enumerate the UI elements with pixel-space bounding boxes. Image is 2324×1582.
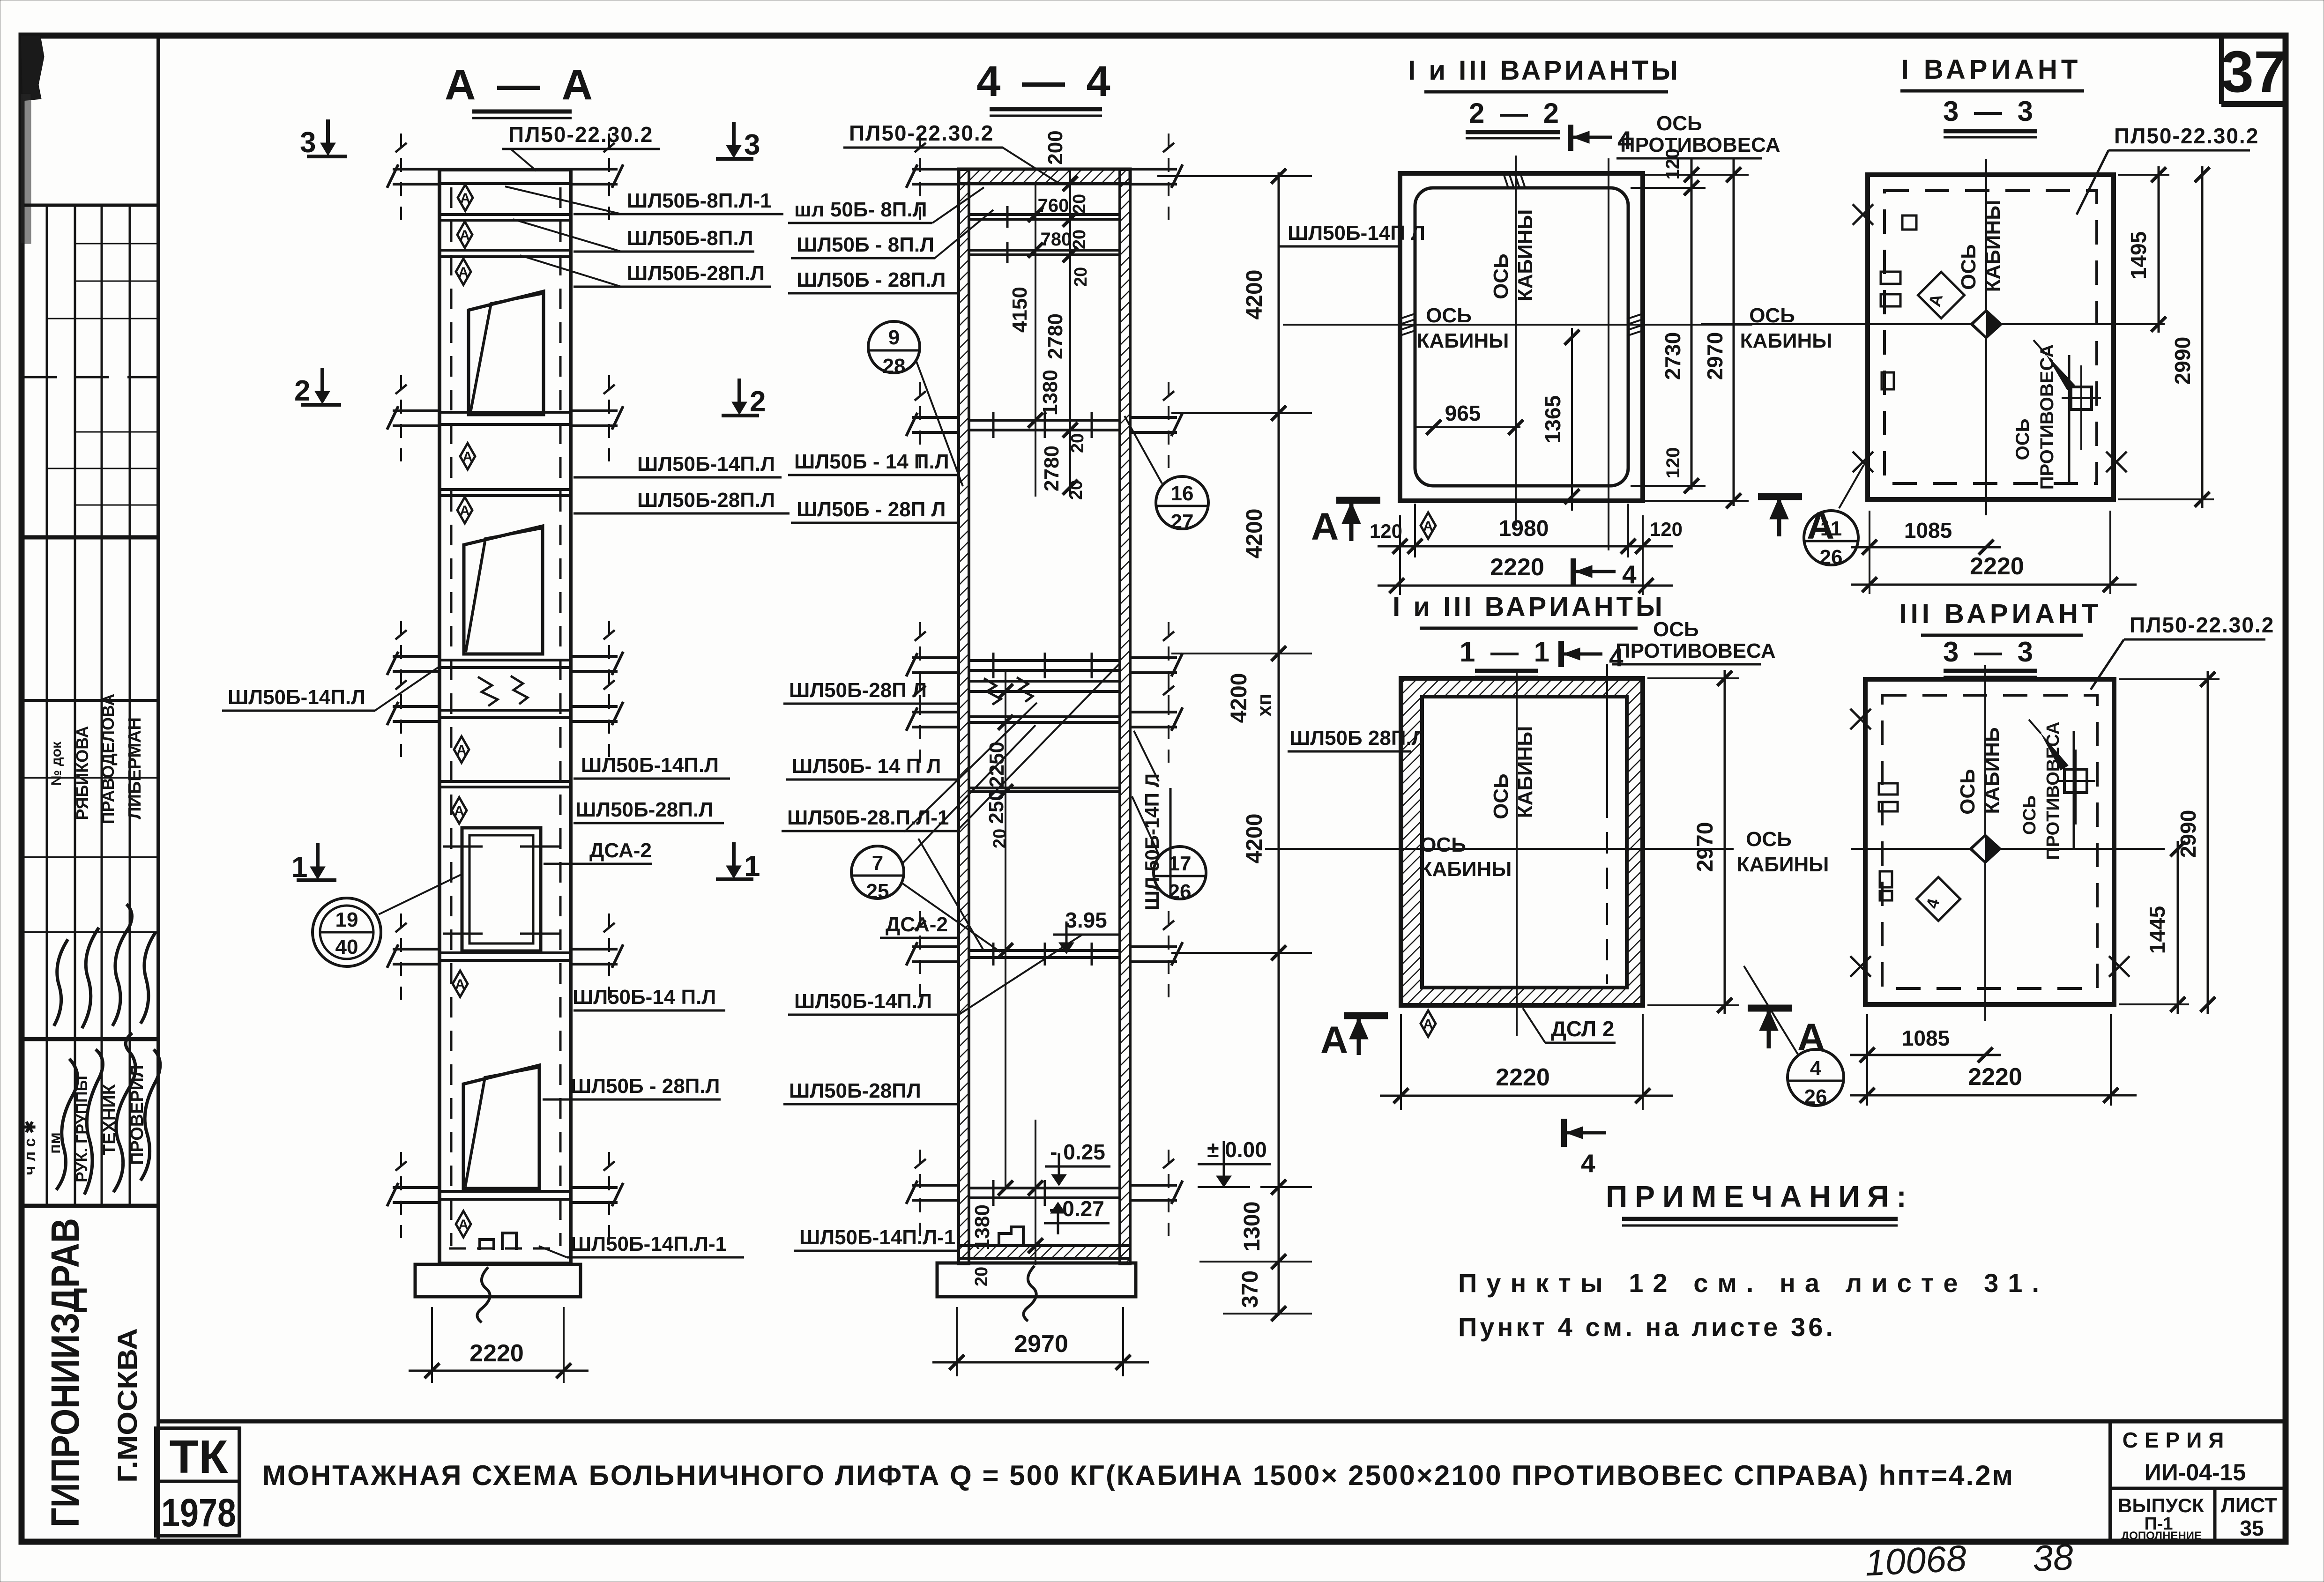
svg-text:120: 120 (1370, 520, 1402, 542)
svg-text:ТК: ТК (170, 1431, 229, 1483)
svg-text:ШЛ50Б-8П.Л-1: ШЛ50Б-8П.Л-1 (627, 189, 772, 212)
svg-text:ШЛ50Б-28ПЛ: ШЛ50Б-28ПЛ (789, 1079, 921, 1102)
svg-text:1380: 1380 (971, 1204, 994, 1250)
plan 3-3b centre diamond (1969, 834, 2002, 864)
svg-text:ОСЬ: ОСЬ (1426, 304, 1472, 327)
svg-text:4: 4 (1581, 1149, 1595, 1178)
svg-text:1380: 1380 (1039, 370, 1062, 416)
svg-text:1365: 1365 (1541, 395, 1565, 443)
svg-text:КАБИНЫ: КАБИНЫ (1737, 853, 1829, 876)
svg-text:ШЛ50Б-14 П.Л: ШЛ50Б-14 П.Л (573, 986, 716, 1009)
4-4 break squiggle (984, 678, 1001, 705)
svg-text:I и III ВАРИАНТЫ: I и III ВАРИАНТЫ (1393, 592, 1665, 622)
label ШЛ50Б-28ПЛ (783, 1079, 959, 1104)
svg-text:ОСЬ: ОСЬ (1490, 253, 1512, 299)
svg-text:3 — 3: 3 — 3 (1943, 636, 2037, 668)
A-A footing (415, 1264, 581, 1297)
svg-text:1085: 1085 (1902, 1026, 1950, 1050)
svg-text:370: 370 (1238, 1270, 1263, 1308)
svg-text:2970: 2970 (1693, 822, 1718, 872)
callout circle 9/28 (868, 321, 963, 486)
plan 2-2 wall hatch marks (1503, 172, 1526, 189)
svg-text:4200: 4200 (1227, 673, 1251, 723)
plan 2-2 cabin axis lines (1515, 156, 1517, 526)
svg-text:20: 20 (1068, 433, 1088, 453)
strip names (rotated) (49, 694, 145, 824)
svg-text:ПЛ50-22.30.2: ПЛ50-22.30.2 (2130, 613, 2274, 637)
4-4 pit buffer (999, 1227, 1023, 1246)
plan 2-2 dim 965 (1415, 401, 1523, 435)
crossing leader lines to panels (904, 663, 1120, 1015)
svg-text:4: 4 (1622, 560, 1637, 589)
svg-text:2730: 2730 (1661, 332, 1685, 380)
section level marker 2 (left) (294, 368, 341, 407)
callout circle 19/40 (313, 874, 462, 966)
plan 3-3b counterweight (2064, 769, 2087, 793)
svg-text:760: 760 (1038, 195, 1069, 216)
plan 1-1 corner diamond A (1421, 1010, 1436, 1037)
4-4 top slab (hatched) (959, 169, 1130, 184)
plan 3-3 dim 2990 (rotated) (2118, 166, 2214, 508)
svg-text:ГИПРОНИИЗДРАВ: ГИПРОНИИЗДРАВ (43, 1218, 87, 1527)
svg-text:19: 19 (335, 908, 358, 931)
4-4 shaft walls (hatched) (959, 170, 969, 1264)
A-A bottom dimension 2220 (409, 1307, 588, 1383)
svg-text:1978: 1978 (161, 1491, 236, 1535)
svg-text:ОСЬ: ОСЬ (1956, 769, 1979, 815)
label ДСА-2 (544, 839, 652, 864)
svg-text:16: 16 (1171, 482, 1194, 505)
plan 3-3b dim 2990 (rotated) (2119, 671, 2220, 1014)
svg-text:4200: 4200 (1242, 270, 1267, 320)
svg-text:ДСА-2: ДСА-2 (886, 913, 948, 936)
svg-text:2220: 2220 (1970, 553, 2024, 580)
svg-text:120: 120 (1663, 447, 1683, 479)
label ШЛ50Б-14 П.Л (573, 986, 725, 1010)
svg-text:27: 27 (1171, 510, 1194, 533)
plan 1-1 label ДСЛ 2 (1523, 1008, 1616, 1043)
svg-text:200: 200 (1044, 130, 1067, 164)
plan 1-1 cabin axis lines (1516, 669, 1518, 1036)
svg-text:ШЛ 50Б-14П Л: ШЛ 50Б-14П Л (1141, 773, 1163, 910)
svg-text:ШЛ50Б-14П.Л-1: ШЛ50Б-14П.Л-1 (571, 1233, 727, 1255)
svg-text:ВЫПУСК: ВЫПУСК (2118, 1494, 2204, 1516)
svg-text:3: 3 (744, 129, 760, 161)
section arrow marker A (upper right of 4-4) (1311, 500, 1380, 548)
bottom title bar frame (156, 1421, 2286, 1542)
svg-text:ОСЬ: ОСЬ (1746, 828, 1792, 851)
svg-text:35: 35 (2240, 1516, 2264, 1540)
svg-text:ШЛ50Б - 8П.Л: ШЛ50Б - 8П.Л (797, 233, 934, 256)
section level marker 2 (right) (722, 379, 766, 418)
plan 3-3 diamond A callout (1918, 272, 1965, 319)
A-A door opening bottom floor (463, 1065, 539, 1188)
svg-text:хп: хп (1253, 694, 1275, 717)
label ШЛ50Б-28П.Л (574, 489, 790, 513)
svg-text:ШЛ50Б - 28П.Л: ШЛ50Б - 28П.Л (571, 1075, 720, 1098)
plan 3-3b shaft walls (1865, 679, 2114, 1004)
svg-text:ПРИМЕЧАНИЯ:: ПРИМЕЧАНИЯ: (1606, 1180, 1914, 1213)
plan 3-3 bottom dims 1085 / 2220 (1851, 511, 2137, 594)
plan 2-2 section flag 4 (top) (1571, 125, 1632, 155)
svg-text:Пункты 12 см. на листе: Пункты 12 см. на листе 31. (1458, 1268, 2039, 1298)
plan 3-3b corner X marks (1850, 709, 1871, 729)
svg-text:СЕРИЯ: СЕРИЯ (2123, 1428, 2231, 1452)
svg-text:4200: 4200 (1242, 509, 1267, 559)
svg-text:2990: 2990 (2176, 810, 2200, 858)
svg-text:120: 120 (1662, 149, 1683, 180)
svg-text:ОСЬ: ОСЬ (1656, 112, 1702, 135)
svg-text:1495: 1495 (2126, 231, 2151, 279)
plan 2-2 right dims 120 2730 2970 (1631, 149, 1749, 508)
svg-text:1085: 1085 (1904, 518, 1952, 542)
svg-text:3.95: 3.95 (1065, 908, 1107, 932)
plan 3-3 door lock marks (1881, 272, 1900, 284)
svg-text:ШЛ50Б-14П.Л-1: ШЛ50Б-14П.Л-1 (799, 1226, 955, 1249)
A-A floor corbels (387, 134, 439, 220)
svg-text:ДСА-2: ДСА-2 (589, 839, 652, 862)
left title strip (stamp column) (24, 36, 158, 1542)
svg-text:А: А (1320, 1019, 1348, 1062)
A-A mount diamonds (458, 185, 473, 211)
svg-text:4150: 4150 (1008, 287, 1031, 333)
svg-text:3: 3 (300, 126, 316, 159)
svg-text:ШЛ50Б-14П.Л: ШЛ50Б-14П.Л (637, 453, 775, 475)
svg-text:КАБИНЫ: КАБИНЫ (1740, 329, 1832, 352)
label ШЛ50Б-28.П.Л-1 (782, 806, 959, 831)
plan 3-3 corner X marks (1853, 204, 1873, 225)
plan 3-3b diamond 4 callout (1916, 877, 1960, 921)
svg-text:КАБИНЫ: КАБИНЫ (1981, 200, 2004, 292)
label ШЛ50Б-8П.Л (upper) (788, 187, 984, 223)
label ПЛ50-22.30.2 (bottom right) (2091, 613, 2274, 690)
plan 3-3 axes (1985, 159, 1987, 515)
section level marker 1 (left) (291, 843, 336, 884)
strip signatures (handwritten scribbles) (54, 904, 160, 1195)
svg-text:965: 965 (1445, 401, 1481, 425)
4-4 inner dimension lines (1035, 184, 1036, 497)
svg-text:ОСЬ: ОСЬ (1957, 244, 1980, 290)
svg-text:ч л с ✱: ч л с ✱ (21, 1120, 39, 1175)
svg-text:2780: 2780 (1040, 446, 1063, 491)
svg-text:I и III ВАРИАНТЫ: I и III ВАРИАНТЫ (1408, 55, 1681, 86)
A-A door opening floor 8 (469, 291, 544, 415)
svg-text:ДОПОЛНЕНИЕ: ДОПОЛНЕНИЕ (2121, 1530, 2202, 1542)
4-4 floor corbels (906, 134, 959, 220)
A-A pit buffers (480, 1240, 494, 1250)
long leader label ШЛ50Б-14П Л (to plan 2-2) (1279, 222, 1425, 246)
svg-text:2 — 2: 2 — 2 (1469, 97, 1563, 129)
svg-text:20: 20 (1070, 230, 1089, 249)
svg-text:ШЛ50Б-28П.Л: ШЛ50Б-28П.Л (637, 489, 775, 512)
svg-text:ШЛ50Б-14П.Л: ШЛ50Б-14П.Л (228, 686, 365, 709)
4-4 right dimension chain (1157, 169, 1312, 1321)
label ШЛ50Б-14П.Л-1 (539, 1233, 744, 1257)
4-4 level mark -0.27 (1044, 1196, 1110, 1234)
svg-text:20: 20 (1070, 194, 1089, 214)
svg-text:2220: 2220 (469, 1340, 524, 1367)
svg-text:26: 26 (1820, 546, 1843, 569)
svg-text:А: А (1311, 505, 1339, 548)
plan 2-2 axis label ОСЬ ПРОТИВОВЕСА (top) (1616, 112, 1780, 158)
svg-text:2990: 2990 (2170, 337, 2195, 385)
rotated label ШЛ 50Б-14П Л (right of 4-4) (1134, 731, 1170, 910)
svg-text:ПЛ50-22.30.2: ПЛ50-22.30.2 (849, 121, 994, 145)
svg-text:ОСЬ: ОСЬ (1490, 773, 1512, 819)
label ШЛ50Б-28П.Л (788, 268, 959, 293)
svg-text:ПРАВОДЕЛОВА: ПРАВОДЕЛОВА (98, 694, 118, 824)
plan 3-3b axes (1984, 665, 1986, 1021)
svg-text:20: 20 (1066, 480, 1086, 500)
plan 3-3 counterweight (2071, 387, 2092, 409)
plan 1-1 dim 2220 (1380, 1014, 1673, 1110)
section level marker 1 (right) (716, 842, 760, 883)
label ШЛ50Б-14П.Л (788, 990, 959, 1015)
svg-text:2220: 2220 (1496, 1064, 1550, 1091)
svg-text:1300: 1300 (1240, 1202, 1265, 1252)
plan 2-2 shaft walls (1400, 173, 1643, 501)
svg-text:№ док: № док (49, 741, 64, 786)
section arrow marker A (lower right of 4-4) (1320, 1016, 1388, 1062)
svg-text:20: 20 (972, 1267, 991, 1286)
svg-text:± 0.00: ± 0.00 (1207, 1137, 1267, 1162)
A-A door frame ДСА-2 (462, 828, 541, 951)
svg-text:КАБИНЫ: КАБИНЫ (1514, 726, 1537, 818)
svg-text:26: 26 (1804, 1085, 1827, 1108)
svg-text:120: 120 (1650, 518, 1683, 540)
plan 3-3b bottom dims 1085 / 2220 (1850, 1014, 2137, 1106)
svg-text:28: 28 (883, 355, 906, 378)
4-4 left-side panel labels (782, 187, 993, 1251)
svg-text:ШЛ50Б - 14 П.Л: ШЛ50Б - 14 П.Л (794, 450, 949, 473)
svg-text:4 — 4: 4 — 4 (976, 58, 1115, 105)
plan 1-1 right dim 2970 (1647, 670, 1739, 1014)
svg-text:ПРОТИВОВЕСА: ПРОТИВОВЕСА (1620, 134, 1780, 156)
plan 1-1 shaft walls hatched (1401, 678, 1643, 1005)
label ШЛ50Б-28П.Л (783, 679, 959, 704)
label ШЛ50Б-14П.Л-1 (794, 1226, 959, 1251)
svg-text:РЯБИКОВА: РЯБИКОВА (73, 726, 92, 820)
long leader label ШЛ50Б 28П.Л (to plan 1-1) (1288, 727, 1426, 751)
svg-text:2780: 2780 (1044, 313, 1067, 359)
svg-text:ОСЬ: ОСЬ (1653, 618, 1699, 641)
svg-text:780: 780 (1041, 229, 1072, 250)
svg-text:17: 17 (1169, 852, 1192, 875)
plan 3-3 shaft walls (1868, 175, 2114, 499)
svg-text:ШЛ50Б-14П Л: ШЛ50Б-14П Л (1288, 222, 1425, 245)
svg-text:ШЛ50Б-28.П.Л-1: ШЛ50Б-28.П.Л-1 (787, 806, 949, 829)
svg-text:ОСЬ: ОСЬ (2020, 795, 2040, 835)
section arrow marker A (right-bottom of plan 2-2) (1758, 497, 1834, 547)
callout circle 4/26 (1744, 966, 1844, 1108)
svg-text:А — А: А — А (445, 61, 597, 109)
plan 2-2 section flag 4 (bottom) (1573, 558, 1637, 589)
scan smudge top-left (21, 36, 44, 101)
svg-text:37: 37 (2221, 39, 2286, 104)
A-A right-side panel labels (505, 186, 790, 1257)
strip row labels (rotated) (21, 1065, 147, 1182)
svg-text:ШЛ50Б - 28П.Л: ШЛ50Б - 28П.Л (797, 268, 946, 291)
section arrow marker A (right-bottom of plan 1-1) (1748, 1008, 1825, 1059)
4-4 slab rebar ticks (993, 206, 1092, 1206)
svg-text:4200: 4200 (1242, 814, 1267, 864)
plan 3-3 dim 1495 (rotated) (2118, 166, 2169, 333)
svg-text:ШЛ50Б-28П Л: ШЛ50Б-28П Л (789, 679, 927, 702)
plan 2-2 dim 1365 (rotated) (1541, 328, 1579, 511)
svg-text:МОНТАЖНАЯ СХЕМА БОЛЬНИЧНОГО: МОНТАЖНАЯ СХЕМА БОЛЬНИЧНОГО ЛИФТА Q = 50… (262, 1460, 2015, 1491)
callout circle 17/26 (1132, 796, 1206, 903)
label ШЛ50Б-14П.Л (574, 453, 782, 477)
4-4 footing (937, 1263, 1136, 1297)
svg-text:ИИ-04-15: ИИ-04-15 (2145, 1459, 2246, 1485)
svg-text:ЛИСТ: ЛИСТ (2221, 1494, 2277, 1517)
label ШЛ50Б-28П.Л (574, 798, 724, 823)
svg-text:2220: 2220 (1490, 554, 1544, 581)
svg-text:3 — 3: 3 — 3 (1943, 96, 2037, 127)
svg-text:20: 20 (990, 829, 1010, 848)
section level marker 3 (left) (300, 119, 347, 159)
svg-text:I ВАРИАНТ: I ВАРИАНТ (1901, 54, 2082, 85)
svg-text:КАБИНЬ: КАБИНЬ (1981, 727, 2004, 814)
svg-text:1980: 1980 (1499, 516, 1549, 541)
svg-text:ОСЬ: ОСЬ (2012, 419, 2033, 460)
svg-text:38: 38 (2032, 1536, 2074, 1579)
plan 3-3b door lock marks (1879, 783, 1898, 795)
section level marker 3 (right) (716, 122, 760, 161)
svg-text:ШЛ50Б-8П.Л: ШЛ50Б-8П.Л (627, 227, 753, 250)
plan 3-3b dim 1445 (rotated) (2119, 841, 2189, 1014)
callout circle 11/26 (1804, 465, 1864, 569)
svg-text:КАБИНЫ: КАБИНЫ (1514, 209, 1537, 302)
label ШЛ50Б-8П.Л-1 (505, 186, 783, 214)
svg-text:2970: 2970 (1703, 332, 1727, 380)
4-4 level mark 3.95 (1053, 908, 1120, 954)
svg-text:III ВАРИАНТ: III ВАРИАНТ (1899, 599, 2102, 629)
4-4 level mark -0.25 (1045, 1140, 1110, 1186)
svg-text:ДСЛ 2: ДСЛ 2 (1551, 1017, 1614, 1041)
svg-text:4: 4 (1810, 1057, 1822, 1080)
svg-text:ОСЬ: ОСЬ (1749, 304, 1795, 327)
svg-text:ШЛ50Б-14П.Л: ШЛ50Б-14П.Л (794, 990, 932, 1013)
sheet number box 37 (2219, 36, 2224, 104)
svg-text:ШЛ50Б - 28П Л: ШЛ50Б - 28П Л (797, 498, 946, 521)
svg-text:ШЛ50Б- 14 П Л: ШЛ50Б- 14 П Л (792, 755, 941, 778)
svg-text:ПРОТИВОВЕСА: ПРОТИВОВЕСА (1616, 639, 1776, 662)
svg-text:1445: 1445 (2145, 906, 2169, 954)
plan 3-3 centre diamond (1970, 309, 2003, 339)
label ШЛ50Б-14П.Л (786, 755, 959, 780)
plan 2-2 bottom dims 120 1980 120 / 2220 (1370, 504, 1683, 595)
svg-text:ПЛ50-22.30.2: ПЛ50-22.30.2 (2114, 124, 2259, 148)
callout circle 7/25 (851, 725, 1035, 952)
A-A shaft walls (439, 170, 571, 1265)
strip faint row lines (24, 244, 158, 932)
svg-text:ШЛ50Б-28П.Л: ШЛ50Б-28П.Л (575, 798, 713, 821)
svg-text:1 — 1: 1 — 1 (1460, 636, 1553, 668)
svg-text:ПЛ50-22.30.2: ПЛ50-22.30.2 (508, 122, 653, 147)
svg-text:2970: 2970 (1014, 1330, 1068, 1358)
svg-text:ЛИБЕРМАН: ЛИБЕРМАН (125, 717, 145, 819)
plan 1-1 axis label ОСЬ ПРОТИВОВЕСА (top) (1612, 618, 1776, 664)
svg-text:ОСЬ: ОСЬ (1420, 833, 1466, 856)
svg-text:10068: 10068 (1864, 1537, 1967, 1582)
A-A floor slab lines (439, 170, 571, 1263)
4-4 level mark ±0.00 (1198, 1137, 1271, 1187)
svg-text:2220: 2220 (1968, 1063, 2022, 1091)
svg-text:40: 40 (335, 936, 358, 958)
svg-text:Г.МОСКВА: Г.МОСКВА (112, 1328, 143, 1483)
label ШЛ50Б-8П.Л (lower) (791, 210, 993, 258)
svg-text:11: 11 (1820, 517, 1842, 540)
4-4 pit floor (hatched) (959, 1246, 1130, 1258)
svg-text:25: 25 (866, 880, 889, 903)
svg-text:ШЛ50Б-28П.Л: ШЛ50Б-28П.Л (627, 262, 765, 285)
plan 1-1 section flag 4 (top) (1561, 641, 1624, 672)
svg-text:КАБИНЫ: КАБИНЫ (1417, 329, 1509, 352)
4-4 floor slab lines (969, 215, 1120, 1198)
svg-text:шл 50Б- 8П.Л: шл 50Б- 8П.Л (794, 198, 927, 221)
label ДСА-2 (880, 913, 959, 938)
svg-text:250: 250 (985, 789, 1008, 824)
svg-text:7: 7 (872, 852, 883, 875)
svg-text:9: 9 (888, 326, 900, 349)
svg-text:26: 26 (1169, 880, 1192, 903)
4-4 bottom dimension 2970 (932, 1307, 1149, 1376)
label ШЛ50Б-8П.Л (513, 219, 754, 252)
label ПЛ50-22.30.2 (top right) (2077, 124, 2259, 215)
svg-text:2: 2 (750, 386, 766, 418)
plan 2-2 corner diamond A (1421, 512, 1436, 539)
svg-text:ШЛ50Б-14П.Л: ШЛ50Б-14П.Л (581, 754, 719, 777)
label ШЛ50Б-28П.Л (520, 255, 771, 287)
A-A door opening floor mid (464, 526, 543, 654)
label ШЛ50Б-14П.Л (574, 754, 730, 779)
A-A break squiggle mid column (478, 677, 498, 706)
callout circle 16/27 (1125, 416, 1208, 533)
plan 1-1 section flag 4 (bottom) (1564, 1119, 1606, 1178)
label ШЛ50Б-28П.Л (791, 498, 959, 523)
label ШЛ50Б-28П.Л (543, 1075, 721, 1099)
svg-text:2: 2 (294, 375, 310, 407)
svg-text:КАБИНЫ: КАБИНЫ (1420, 858, 1512, 881)
label ШЛ50Б-14П.Л (788, 450, 959, 475)
svg-text:20: 20 (1071, 267, 1091, 287)
A-A left label ШЛ50Б-14П.Л (222, 667, 439, 711)
